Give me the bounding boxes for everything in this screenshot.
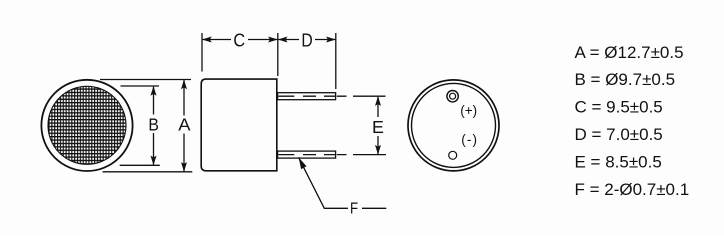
dimension B extension line bottom (120, 164, 160, 166)
dimension B extension line top (121, 85, 160, 87)
positive pin inner (450, 93, 456, 99)
bottom pin centerline (278, 154, 346, 156)
top pin (278, 93, 336, 100)
svg-text:C = 9.5±0.5: C = 9.5±0.5 (575, 98, 663, 117)
dimension B arrow line (153, 87, 155, 115)
svg-text:D: D (301, 29, 312, 51)
negative pin (449, 151, 457, 159)
dimension E extension line top (353, 95, 386, 97)
svg-text:E: E (372, 117, 384, 137)
dimension E extension line bottom (353, 154, 386, 156)
F leader arrow (299, 157, 348, 208)
svg-text:(+): (+) (460, 103, 477, 118)
svg-text:B = Ø9.7±0.5: B = Ø9.7±0.5 (575, 70, 676, 89)
svg-text:F = 2-Ø0.7±0.1: F = 2-Ø0.7±0.1 (575, 180, 690, 199)
top pin centerline (278, 95, 346, 97)
dimension E arrow line (377, 97, 379, 117)
svg-text:F: F (350, 201, 358, 218)
dimension D extension line right (335, 33, 337, 89)
svg-text:A: A (178, 115, 190, 135)
svg-text:D = 7.0±0.5: D = 7.0±0.5 (575, 125, 663, 144)
dimension C arrow line (203, 39, 231, 41)
back-view outer circle (408, 80, 499, 171)
positive pin outer (447, 91, 458, 102)
svg-text:B: B (148, 115, 158, 135)
dimension table (575, 43, 690, 199)
svg-text:C: C (233, 29, 245, 50)
transducer front-view mesh face (48, 86, 126, 164)
back-view inner circle (412, 83, 496, 167)
dimension D arrow line (278, 39, 299, 41)
bottom pin (278, 151, 336, 158)
dimension C/D shared extension line (277, 33, 279, 76)
dimension A extension line top (100, 79, 191, 81)
dimension C extension line left (201, 33, 203, 72)
side-view body (201, 79, 277, 171)
svg-text:(-): (-) (461, 132, 478, 147)
svg-text:A = Ø12.7±0.5: A = Ø12.7±0.5 (575, 43, 684, 62)
dimension A extension line bottom (103, 171, 193, 173)
F trailing line (362, 207, 386, 209)
transducer front-view outer rim (41, 80, 132, 171)
svg-text:E = 8.5±0.5: E = 8.5±0.5 (575, 152, 662, 171)
dimension A arrow line (183, 80, 185, 115)
